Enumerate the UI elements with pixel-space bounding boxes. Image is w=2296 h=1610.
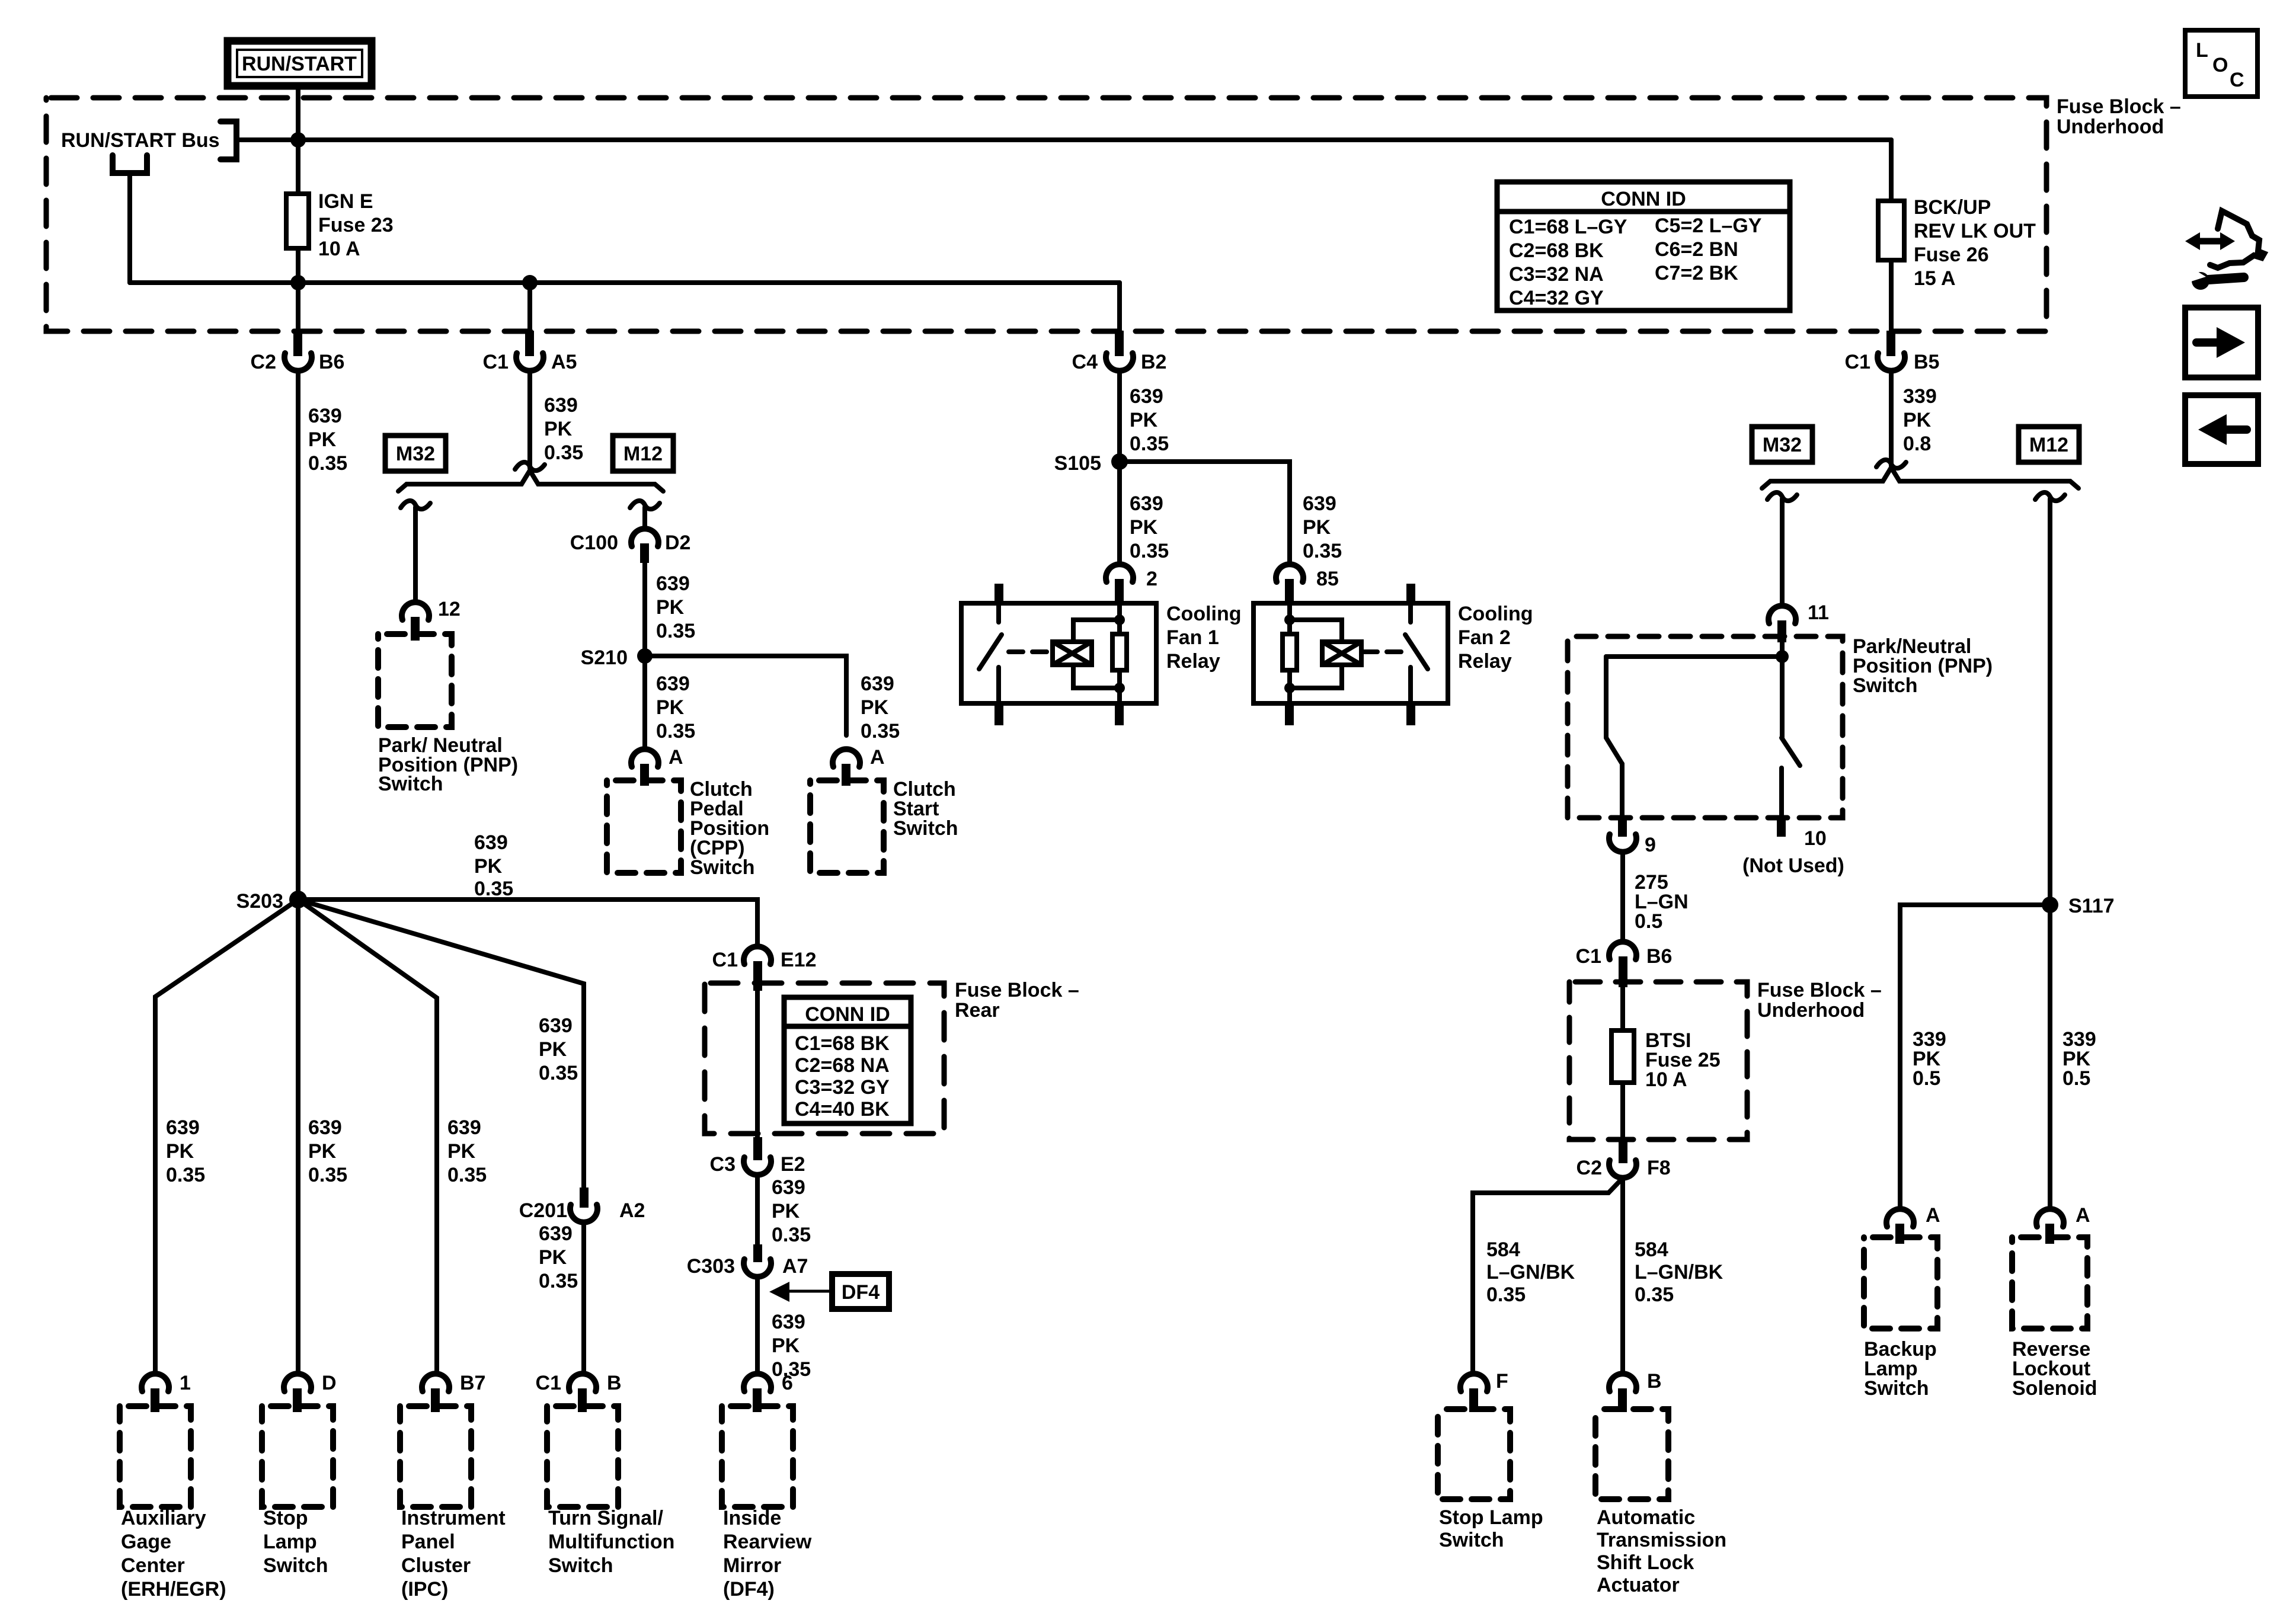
wire drop to C100 — [642, 507, 647, 529]
fuse IGN E Fuse 23 — [286, 194, 309, 248]
svg-text:PK: PK — [544, 418, 573, 440]
svg-text:B5: B5 — [1914, 351, 1939, 373]
splice wave left drop (to 11) — [1767, 492, 1797, 501]
svg-text:Switch: Switch — [1853, 674, 1918, 697]
svg-text:11: 11 — [1808, 601, 1829, 624]
svg-text:Fuse 26: Fuse 26 — [1914, 244, 1989, 266]
svg-text:0.5: 0.5 — [1635, 910, 1662, 933]
svg-text:Cooling: Cooling — [1166, 603, 1242, 625]
svg-text:6: 6 — [782, 1372, 793, 1394]
svg-text:0.35: 0.35 — [474, 878, 513, 900]
svg-text:RUN/START Bus: RUN/START Bus — [61, 129, 220, 152]
connector C1/B5 — [1845, 331, 1940, 373]
label Fuse Block - Underhood (BTSI) — [1757, 979, 1882, 1022]
svg-text:0.35: 0.35 — [308, 1164, 347, 1186]
svg-text:0.35: 0.35 — [308, 452, 347, 475]
svg-text:Inside: Inside — [723, 1507, 781, 1529]
splice wave right drop (to S117) — [2035, 492, 2065, 501]
svg-text:Switch: Switch — [893, 817, 958, 840]
connector C1/A5 — [483, 331, 577, 373]
label Auxiliary Gage Center (ERH/EGR) — [121, 1507, 226, 1601]
svg-text:C: C — [2230, 69, 2244, 91]
svg-text:639: 639 — [474, 831, 508, 854]
svg-text:10 A: 10 A — [1645, 1068, 1687, 1091]
svg-text:Cluster: Cluster — [401, 1554, 471, 1577]
svg-text:Switch: Switch — [263, 1554, 328, 1577]
splice wave at A5 brace peak — [515, 462, 545, 470]
svg-text:(Not Used): (Not Used) — [1742, 854, 1844, 877]
wire A2 down to turn signal — [581, 1222, 586, 1374]
svg-text:PK: PK — [861, 696, 889, 719]
component box Turn Signal/Multifunction Switch — [547, 1406, 618, 1507]
label 639 PK 0.35 (B6 drop) — [308, 405, 347, 475]
connector pin 11 — [1769, 601, 1829, 642]
component box Inside Rearview Mirror — [722, 1406, 793, 1507]
svg-text:CONN ID: CONN ID — [1601, 188, 1686, 210]
svg-text:2: 2 — [1146, 568, 1157, 590]
svg-text:C2: C2 — [251, 351, 276, 373]
node relay K2 top junction — [1284, 614, 1295, 625]
svg-text:B7: B7 — [460, 1372, 485, 1394]
svg-text:(IPC): (IPC) — [401, 1578, 448, 1601]
svg-text:C3=32 GY: C3=32 GY — [795, 1076, 890, 1099]
M12 tag box (left) — [613, 436, 673, 471]
connector C2/F8 — [1576, 1140, 1671, 1179]
connector pin 12 — [402, 598, 461, 641]
svg-text:85: 85 — [1316, 568, 1339, 590]
svg-text:F8: F8 — [1647, 1157, 1671, 1179]
svg-text:0.35: 0.35 — [861, 720, 900, 742]
svg-text:S105: S105 — [1054, 452, 1101, 475]
connector C201/A2 — [519, 1188, 645, 1222]
wire relay K2 pin85 internal — [1287, 603, 1292, 703]
label Cooling Fan 2 Relay — [1458, 603, 1533, 673]
label Park/ Neutral Position (PNP) Switch — [378, 734, 518, 795]
relay K2 coil — [1322, 642, 1361, 665]
connector C4/B2 — [1072, 331, 1167, 373]
svg-text:0.35: 0.35 — [544, 441, 583, 464]
wire B2 to S105 — [1117, 371, 1122, 462]
wire S210 down to CPP — [642, 656, 647, 749]
svg-text:PK: PK — [539, 1246, 567, 1269]
connector C100/D2 — [570, 529, 691, 563]
svg-text:0.35: 0.35 — [1635, 1283, 1674, 1306]
node junction bus2 / A5 drop — [522, 275, 538, 290]
svg-text:Stop: Stop — [263, 1507, 308, 1529]
icon arrow right box — [2185, 308, 2258, 377]
relay K1 coil loop wiring — [1073, 620, 1120, 688]
connector C2/B6 — [251, 331, 345, 373]
svg-text:0.35: 0.35 — [1130, 433, 1169, 455]
node relay K1 bottom junction — [1114, 683, 1125, 693]
wire relay K1 pin2 internal — [1117, 603, 1122, 703]
svg-text:Mirror: Mirror — [723, 1554, 781, 1577]
relay K1 mechanical link dashes — [1009, 649, 1054, 654]
wire B6 to S203 — [296, 371, 300, 900]
svg-text:A2: A2 — [619, 1199, 645, 1222]
svg-text:Multifunction: Multifunction — [548, 1531, 674, 1553]
relay K2 Cooling Fan 2 box — [1253, 603, 1448, 703]
label IGN E Fuse 23 10 A — [318, 190, 394, 260]
svg-text:C3: C3 — [710, 1153, 736, 1176]
relay K1 pin stub bottom right — [1115, 703, 1124, 725]
wire drop to PNP 12 — [413, 507, 418, 602]
label 639 PK 0.35 (A5 drop) — [544, 394, 583, 464]
wire D2 to S210 — [642, 563, 647, 656]
svg-text:A: A — [1926, 1204, 1940, 1227]
DF4 destination tag box with arrow — [769, 1274, 889, 1309]
label Turn Signal/Multifunction Switch — [548, 1507, 674, 1577]
svg-text:IGN E: IGN E — [318, 190, 373, 213]
svg-text:0.35: 0.35 — [1303, 540, 1342, 562]
label 639 PK 0.35 (below A2) — [539, 1222, 578, 1292]
label 639 PK 0.35 (A7 drop) — [772, 1311, 811, 1381]
svg-text:PK: PK — [166, 1140, 194, 1163]
svg-text:PK: PK — [1130, 409, 1158, 431]
connector pin A (clutch start) — [833, 746, 885, 786]
splice wave right drop (to C100) — [630, 501, 660, 509]
connector pin B (shift lock actuator) — [1609, 1370, 1662, 1412]
svg-text:Instrument: Instrument — [401, 1507, 506, 1529]
svg-text:E12: E12 — [781, 949, 817, 971]
wire pin11 into switch — [1780, 638, 1785, 657]
wire S203 to E12 corner — [298, 900, 757, 946]
wire BCK/UP fuse vertical — [1889, 140, 1894, 331]
svg-text:C2=68 NA: C2=68 NA — [795, 1054, 890, 1077]
component box Stop Lamp Switch (left) — [262, 1406, 333, 1507]
label Park/Neutral Position (PNP) Switch — [1853, 635, 1993, 697]
wire A5 to harness brace — [527, 371, 532, 468]
svg-text:L: L — [2196, 39, 2208, 62]
svg-text:A: A — [870, 746, 885, 769]
component box Stop Lamp Switch (right) — [1438, 1409, 1510, 1499]
relay K2 switch — [1405, 603, 1428, 703]
component box Auxiliary Gage Center — [120, 1406, 191, 1507]
svg-text:C1: C1 — [536, 1372, 561, 1394]
svg-text:Switch: Switch — [378, 773, 443, 795]
svg-text:M12: M12 — [2029, 434, 2068, 456]
label Backup Lamp Switch — [1864, 1338, 1937, 1400]
svg-text:CONN ID: CONN ID — [805, 1003, 890, 1026]
label 639 PK 0.35 (aux drop) — [166, 1116, 205, 1186]
RUN/START power tag box — [228, 41, 372, 86]
node junction bus1/ign wire — [290, 132, 306, 148]
svg-text:Solenoid: Solenoid — [2012, 1377, 2097, 1400]
svg-text:639: 639 — [656, 673, 690, 695]
svg-text:Relay: Relay — [1458, 650, 1512, 673]
svg-text:Auxiliary: Auxiliary — [121, 1507, 206, 1529]
label Stop Lamp Switch (left) — [263, 1507, 328, 1577]
svg-text:Underhood: Underhood — [2057, 116, 2164, 138]
connector pin F (stop lamp switch) — [1460, 1370, 1508, 1412]
svg-text:BCK/UP: BCK/UP — [1914, 196, 1991, 219]
svg-text:1: 1 — [180, 1372, 191, 1394]
svg-text:C2=68 BK: C2=68 BK — [1509, 239, 1604, 262]
svg-text:0.35: 0.35 — [1486, 1283, 1526, 1306]
component box Backup Lamp Switch — [1864, 1237, 1937, 1329]
svg-text:Stop Lamp: Stop Lamp — [1439, 1506, 1543, 1529]
label 639 PK 0.35 (C201 drop) — [539, 1014, 578, 1084]
wire S105 branch to fan2 relay pin 85 — [1120, 462, 1290, 564]
pin 10 stub (not used) — [1777, 818, 1827, 850]
label Stop Lamp Switch (right) — [1439, 1506, 1543, 1551]
wire S105 to fan1 relay pin 2 — [1117, 462, 1122, 564]
wire A7 to mirror — [755, 1277, 760, 1374]
svg-text:C100: C100 — [570, 532, 618, 554]
bus bar bracket lower (second feed) — [113, 155, 147, 173]
svg-text:0.5: 0.5 — [1913, 1067, 1940, 1090]
svg-text:C1: C1 — [483, 351, 509, 373]
svg-text:639: 639 — [308, 1116, 342, 1139]
svg-text:0.35: 0.35 — [772, 1224, 811, 1246]
label Fuse Block - Rear — [955, 979, 1079, 1022]
CONN ID table (underhood) — [1497, 182, 1790, 311]
component box Park/Neutral Position (PNP) Switch (right) — [1568, 636, 1843, 818]
label 639 PK 0.35 (CPP drop) — [656, 673, 695, 742]
M12 tag box (right) — [2019, 427, 2079, 462]
svg-text:PK: PK — [474, 855, 503, 878]
icon arrow left box — [2185, 395, 2258, 464]
svg-text:DF4: DF4 — [842, 1281, 880, 1304]
wire F8 to shift lock actuator — [1620, 1178, 1625, 1374]
relay K2 coil loop wiring — [1290, 620, 1342, 688]
wire second feed stem — [127, 173, 132, 283]
svg-text:0.35: 0.35 — [166, 1164, 205, 1186]
svg-text:339: 339 — [1903, 385, 1937, 408]
svg-text:C1: C1 — [1576, 945, 1601, 968]
relay K2 resistor — [1283, 634, 1297, 670]
component box Instrument Panel Cluster — [400, 1406, 471, 1507]
svg-text:639: 639 — [308, 405, 342, 427]
wire S117 to reverse lockout — [2048, 905, 2052, 1209]
svg-text:C6=2 BN: C6=2 BN — [1655, 238, 1738, 261]
connector pin 1 (auxiliary gage center) — [142, 1372, 191, 1412]
wire drop to S117 — [2048, 499, 2052, 905]
svg-text:639: 639 — [539, 1014, 573, 1037]
connector pin D (stop lamp switch) — [284, 1372, 337, 1412]
svg-text:Turn Signal/: Turn Signal/ — [548, 1507, 663, 1529]
fuse block rear dashed box — [705, 983, 944, 1134]
svg-text:F: F — [1496, 1370, 1508, 1393]
label Reverse Lockout Solenoid — [2012, 1338, 2097, 1400]
svg-text:Switch: Switch — [1439, 1529, 1504, 1551]
svg-text:10: 10 — [1804, 827, 1827, 850]
relay K1 resistor — [1112, 634, 1127, 670]
svg-text:Switch: Switch — [548, 1554, 613, 1577]
svg-text:0.35: 0.35 — [1130, 540, 1169, 562]
svg-text:RUN/START: RUN/START — [242, 53, 357, 75]
svg-text:0.35: 0.35 — [447, 1164, 487, 1186]
svg-text:C303: C303 — [687, 1255, 735, 1278]
svg-text:D: D — [322, 1372, 337, 1394]
relay K2 pin stub top right — [1406, 584, 1415, 603]
fuse block underhood dashed box — [46, 98, 2046, 331]
label Cooling Fan 1 Relay — [1166, 603, 1242, 673]
label BTSI Fuse 25 10 A — [1645, 1029, 1721, 1091]
svg-text:PK: PK — [447, 1140, 476, 1163]
label Clutch Pedal Position (CPP) Switch — [690, 778, 769, 879]
svg-text:C4=40 BK: C4=40 BK — [795, 1098, 890, 1121]
wire drop to PNP 11 — [1780, 499, 1785, 606]
M32 tag box (left) — [385, 436, 446, 471]
wire S203 branch mid right — [298, 900, 437, 1374]
svg-text:Gage: Gage — [121, 1531, 171, 1553]
wire S210 branch right — [645, 656, 846, 735]
label 639 PK 0.35 (fan1 coil) — [1130, 492, 1169, 562]
svg-text:639: 639 — [166, 1116, 200, 1139]
component box Clutch Pedal Position (CPP) Switch — [607, 780, 681, 873]
icon car with arrow and wrench — [2185, 211, 2264, 290]
svg-text:PK: PK — [308, 1140, 337, 1163]
wire through BTSI fuse block — [1620, 981, 1625, 1140]
svg-text:Relay: Relay — [1166, 650, 1220, 673]
svg-text:B6: B6 — [319, 351, 344, 373]
svg-text:PK: PK — [656, 696, 685, 719]
svg-text:0.35: 0.35 — [656, 720, 695, 742]
node relay K1 top junction — [1114, 614, 1125, 625]
component box Reverse Lockout Solenoid — [2012, 1237, 2087, 1329]
label 339 PK 0.5 (right) — [2062, 1028, 2096, 1090]
connector C1/E12 — [712, 946, 817, 991]
component box Automatic Transmission Shift Lock Actuator — [1595, 1409, 1668, 1499]
svg-text:C7=2 BK: C7=2 BK — [1655, 262, 1738, 284]
svg-text:C1: C1 — [712, 949, 738, 971]
label 639 PK 0.35 (D2 drop) — [656, 572, 695, 642]
connector C1/B (turn signal switch) — [536, 1372, 622, 1412]
wire S203 branch to C201 — [298, 900, 584, 1188]
svg-text:C4=32 GY: C4=32 GY — [1509, 287, 1604, 309]
connector pin A (CPP) — [631, 746, 683, 786]
svg-text:PK: PK — [1903, 409, 1932, 431]
relay K1 Cooling Fan 1 box — [961, 603, 1156, 703]
label 639 PK 0.35 (above S203 right run) — [474, 831, 513, 900]
node S210 — [581, 646, 653, 669]
svg-text:Fuse 23: Fuse 23 — [318, 214, 394, 236]
splice wave at B5 brace peak — [1876, 460, 1906, 468]
svg-text:B: B — [607, 1372, 622, 1394]
svg-text:PK: PK — [1303, 516, 1331, 539]
svg-text:PK: PK — [772, 1334, 800, 1357]
wire E2 to C303 — [755, 1175, 760, 1244]
svg-text:12: 12 — [438, 598, 461, 620]
svg-text:639: 639 — [1303, 492, 1336, 515]
svg-text:C201: C201 — [519, 1199, 567, 1222]
connector C303/A7 — [687, 1244, 808, 1278]
svg-text:Cooling: Cooling — [1458, 603, 1533, 625]
svg-text:M32: M32 — [396, 443, 435, 465]
label 339 PK 0.8 — [1903, 385, 1937, 455]
label 639 PK 0.35 (clutch start drop) — [861, 673, 900, 742]
svg-text:Fuse Block –: Fuse Block – — [1757, 979, 1882, 1001]
svg-text:Actuator: Actuator — [1597, 1574, 1680, 1596]
svg-text:A: A — [2076, 1204, 2090, 1227]
connector pin A (reverse lockout solenoid) — [2036, 1204, 2090, 1244]
svg-text:(ERH/EGR): (ERH/EGR) — [121, 1578, 226, 1601]
wire second feed bus horizontal — [130, 280, 1120, 285]
svg-text:E2: E2 — [781, 1153, 805, 1176]
label Clutch Start Switch — [893, 778, 958, 840]
wire S203 straight down — [296, 900, 300, 1374]
relay K2 pin stub bottom left — [1285, 703, 1294, 725]
svg-text:639: 639 — [1130, 385, 1163, 408]
svg-text:S203: S203 — [236, 890, 283, 913]
connector pin 2 (fan1 relay) — [1106, 564, 1157, 603]
svg-text:PK: PK — [539, 1038, 567, 1061]
svg-text:B: B — [1647, 1370, 1662, 1393]
svg-text:0.8: 0.8 — [1903, 433, 1931, 455]
M32 tag box (right) — [1752, 427, 1812, 462]
relay K1 coil — [1053, 642, 1092, 665]
svg-text:639: 639 — [772, 1176, 805, 1199]
svg-text:S210: S210 — [581, 646, 628, 669]
svg-text:Lamp: Lamp — [263, 1531, 317, 1553]
fuse BCK/UP REV LK OUT Fuse 26 — [1878, 201, 1904, 260]
node S117 — [2042, 895, 2115, 917]
wire B2 drop corner — [1117, 283, 1122, 331]
svg-text:Transmission: Transmission — [1597, 1529, 1726, 1551]
svg-text:Fan 2: Fan 2 — [1458, 626, 1511, 649]
svg-text:0.35: 0.35 — [656, 620, 695, 642]
node S203 — [236, 890, 307, 913]
svg-text:M12: M12 — [623, 443, 663, 465]
svg-text:C3=32 NA: C3=32 NA — [1509, 263, 1604, 286]
bus bar bracket right of RUN/START Bus label — [220, 121, 236, 159]
svg-text:639: 639 — [656, 572, 690, 595]
label 584 L-GN/BK 0.35 (right) — [1635, 1238, 1723, 1306]
label 339 PK 0.5 (left) — [1913, 1028, 1946, 1090]
svg-text:Switch: Switch — [1864, 1377, 1929, 1400]
harness brace M32/M12 right — [1762, 468, 2078, 488]
svg-text:Fan 1: Fan 1 — [1166, 626, 1219, 649]
svg-text:O: O — [2212, 54, 2228, 76]
svg-text:C1=68 BK: C1=68 BK — [795, 1032, 890, 1055]
svg-text:Panel: Panel — [401, 1531, 455, 1553]
relay K2 mechanical link dashes — [1363, 649, 1406, 654]
svg-text:584: 584 — [1486, 1238, 1520, 1261]
wire S203 branch far left — [155, 900, 298, 1374]
svg-text:B2: B2 — [1141, 351, 1166, 373]
node S105 — [1054, 452, 1128, 475]
switch PNP left throw (closed to pin 9) — [1606, 657, 1622, 818]
svg-text:639: 639 — [544, 394, 578, 417]
relay K1 pin stub bottom left — [994, 703, 1003, 725]
svg-text:9: 9 — [1645, 834, 1656, 856]
svg-text:Automatic: Automatic — [1597, 1506, 1695, 1529]
wire S117 branch to backup lamp switch — [1900, 905, 2050, 1209]
node relay K2 bottom junction — [1284, 683, 1295, 693]
wire from RUN/START tag down through fuse 23 — [296, 86, 300, 331]
relay K1 pin stub top left — [994, 584, 1003, 603]
node PNP internal junction — [1776, 650, 1789, 663]
svg-text:L–GN/BK: L–GN/BK — [1486, 1261, 1575, 1283]
svg-text:M32: M32 — [1763, 434, 1802, 456]
wire PNP internal crossbar — [1606, 654, 1782, 659]
label Instrument Panel Cluster (IPC) — [401, 1507, 506, 1601]
svg-text:639: 639 — [861, 673, 894, 695]
connector C1/B6 (BTSI) — [1576, 942, 1673, 987]
connector pin 85 (fan2 relay) — [1276, 564, 1339, 603]
harness brace M32/M12 left — [398, 470, 663, 491]
splice wave left drop (to 12) — [401, 501, 430, 509]
svg-text:C5=2 L–GY: C5=2 L–GY — [1655, 215, 1762, 237]
svg-text:PK: PK — [308, 428, 337, 451]
svg-text:Fuse Block –: Fuse Block – — [2057, 95, 2181, 118]
wire A5 drop — [527, 283, 532, 331]
label 275 L-GN 0.5 — [1635, 871, 1689, 933]
svg-text:PK: PK — [1130, 516, 1158, 539]
label Fuse Block - Underhood (top right) — [2057, 95, 2181, 138]
label 639 PK 0.35 (E2 drop) — [772, 1176, 811, 1246]
